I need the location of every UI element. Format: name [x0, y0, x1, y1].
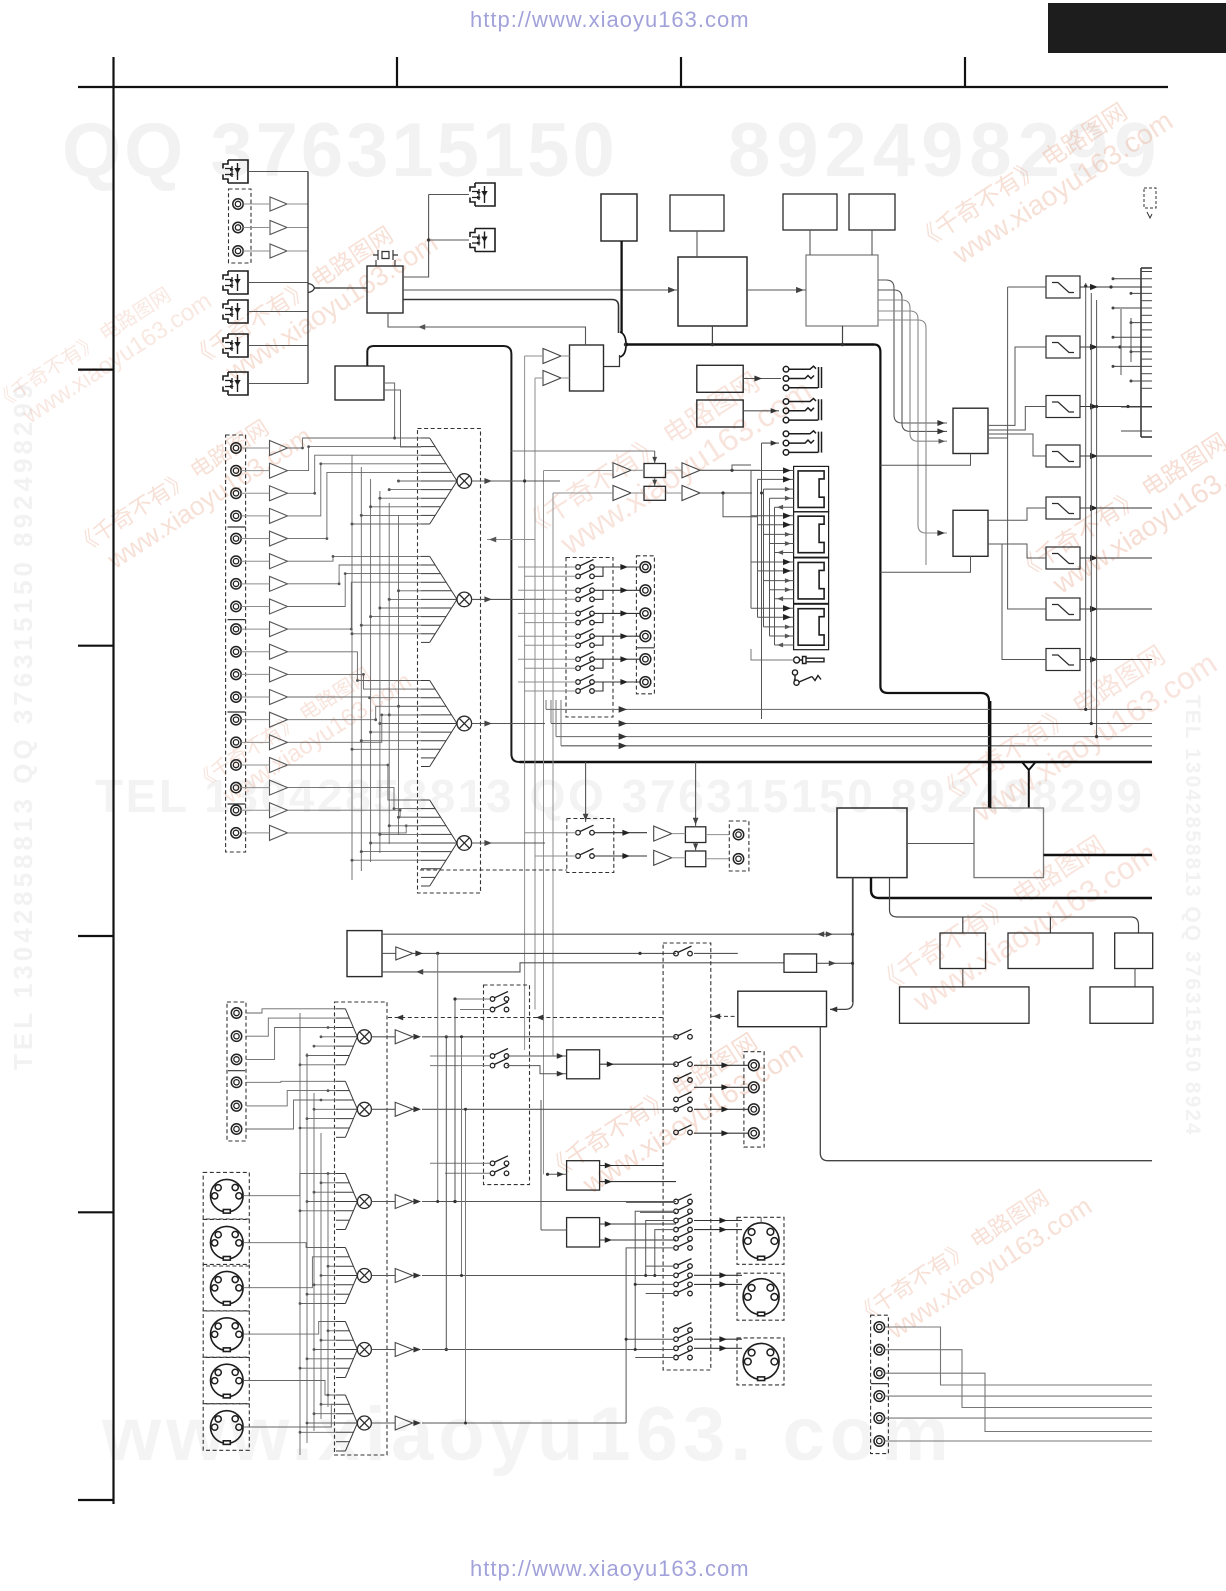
analog buffer 1	[270, 441, 288, 456]
analog RCA jack 9	[231, 624, 241, 634]
dashed ctrl line 2	[711, 1015, 738, 1017]
zone2 mixer ZM2	[357, 1102, 371, 1116]
box E top riser path	[367, 346, 519, 762]
mixer fan 3	[421, 681, 457, 767]
analog buffer 6	[270, 554, 288, 569]
wire S2 to L1 b	[507, 1066, 567, 1074]
comm box P1	[644, 464, 666, 478]
wire optical 3 to bus	[248, 311, 308, 313]
wire M4 out right	[500, 842, 545, 844]
thick bus from B1 down	[620, 241, 622, 333]
wire rec in 1b	[524, 575, 576, 577]
B fanout lines	[878, 280, 947, 565]
S1 switch row 16	[674, 1277, 693, 1287]
box L2	[567, 1161, 600, 1190]
block B3	[783, 194, 837, 230]
wire jack 8 to buffer	[241, 605, 269, 607]
wire S1 to DIN3 a	[694, 1338, 742, 1340]
input group separator 3	[228, 711, 246, 713]
S2 switch row 1	[490, 992, 509, 1002]
analog RCA jack 17	[231, 805, 241, 815]
S1 switch row 13	[674, 1240, 693, 1250]
wire ZM2 out line	[422, 1108, 676, 1110]
dashed ctrl arrow 2	[713, 1014, 720, 1020]
box L3	[567, 1218, 600, 1247]
record switch pair 5b	[576, 661, 595, 671]
wire buffer 2 to bus	[287, 227, 308, 229]
aux RCA jack 6	[874, 1436, 885, 1447]
analog RCA jack 15	[231, 760, 241, 770]
zone2 RCA jack 5	[231, 1101, 241, 1111]
wire rec pair 2 link	[594, 590, 603, 599]
zone2 RCA jack 2	[231, 1031, 241, 1041]
long vertical hp source 2	[534, 378, 536, 1010]
long vertical bundle a	[437, 953, 439, 1201]
wire block C to merge	[604, 355, 620, 367]
wire rec in 1a	[518, 566, 576, 568]
small dashed box top right	[1144, 188, 1156, 208]
thick bus right riser	[874, 345, 989, 809]
wire G1-G2	[907, 843, 974, 845]
block H3	[1115, 933, 1153, 969]
long rec line 4	[561, 745, 1152, 747]
arrow into D2	[937, 530, 945, 536]
S1 switch row 1	[674, 946, 693, 956]
junction 954	[638, 952, 641, 955]
wire M2 out right	[500, 598, 545, 600]
headphone block F1	[697, 365, 743, 392]
border tick top 1	[396, 57, 398, 87]
analog buffer 10	[270, 644, 288, 659]
wire rec in 2b	[524, 598, 576, 600]
wire G1 left down to K	[830, 878, 853, 1010]
bidir line	[382, 933, 853, 935]
wire A to B	[747, 289, 806, 291]
black title box	[1048, 3, 1226, 53]
RJ45 jack 3	[794, 558, 829, 604]
coax RCA jack 3	[233, 246, 243, 256]
wire K bottom down	[820, 1027, 1152, 1161]
junction HP3 vert	[760, 492, 763, 495]
thick bus horizontal main	[626, 343, 874, 345]
wire L3 out b	[600, 1239, 676, 1241]
filter block LPF3	[1046, 396, 1080, 418]
wire S1 row 954 out	[694, 952, 738, 954]
DIN input connector 5	[211, 1364, 244, 1398]
analog RCA jack 18	[231, 828, 241, 838]
zone2 triangle 4	[395, 1269, 413, 1283]
arrow into A	[668, 287, 676, 293]
wire rec pair 5 link	[594, 659, 603, 668]
wire rec out 1	[603, 566, 640, 568]
wire S1 to DIN2 a	[694, 1274, 742, 1276]
RJ45 bus verticals	[751, 471, 775, 646]
D2 to filter wires	[988, 508, 1046, 660]
record switch pair 3b	[576, 615, 595, 625]
monitor RCA jack 1	[748, 1060, 759, 1071]
right edge box top	[1141, 267, 1152, 269]
DIN input connector 2	[211, 1226, 244, 1260]
record switch pair 6a	[576, 675, 595, 685]
analog RCA jack 7	[231, 579, 241, 589]
mixer M4	[457, 836, 472, 851]
rec out RCA jack 6	[640, 677, 651, 688]
optical input connector 5	[223, 372, 248, 395]
record switch pair 3a	[576, 606, 595, 616]
arrow mixer M4 out	[472, 842, 500, 844]
DIN out dashed box 1	[737, 1217, 784, 1264]
comm feed top horizontal	[512, 450, 655, 452]
wire rec out 3	[603, 612, 640, 614]
analog RCA jack 10	[231, 647, 241, 657]
wire zone return	[382, 963, 784, 972]
analog buffer 5	[270, 531, 288, 546]
wire optical 1 to bus	[248, 171, 308, 173]
mixer M1	[457, 474, 472, 489]
optical input connector 1	[223, 160, 248, 183]
rec out RCA jack 4	[640, 631, 651, 642]
junction M1	[523, 479, 526, 482]
wire ZM4 out line	[422, 1275, 674, 1277]
wire B bottom to bus	[842, 326, 844, 345]
analog selector wire matrix	[288, 438, 422, 880]
wire vert hp feed 2	[535, 377, 543, 379]
aux wire 1	[885, 1327, 1152, 1385]
aux RCA jack 5	[874, 1413, 885, 1424]
S1 switch row 14	[674, 1259, 693, 1269]
block B DSP2	[806, 255, 878, 326]
filter LPF8 output	[1080, 659, 1152, 661]
block I2	[1090, 987, 1153, 1023]
wire Q2 out	[706, 858, 730, 860]
analog buffer 7	[270, 576, 288, 591]
zone2 triangle 6	[395, 1416, 413, 1430]
zone2 RCA jack 1	[231, 1008, 241, 1018]
wire S2 to L1 a	[507, 1055, 567, 1057]
record switch pair 1a	[576, 560, 595, 570]
wire S1 to DIN1 b	[694, 1229, 742, 1231]
filter LPF3 output	[1080, 406, 1152, 408]
zone2 mixer fan 3	[336, 1174, 357, 1230]
wire L3 in	[541, 1229, 567, 1231]
record switch pair 6b	[576, 684, 595, 694]
wire vert hp feed 1	[525, 355, 543, 357]
wire ZM2 to triangle	[371, 1108, 395, 1110]
wire ZM3b line	[640, 1211, 676, 1213]
zone2 mixer fan 5	[336, 1322, 357, 1378]
S1 switch row 12	[674, 1231, 693, 1241]
wire H1 drop	[962, 917, 964, 933]
bus Y split to G2	[1022, 762, 1036, 808]
filter block LPF1	[1046, 276, 1080, 298]
zone2 mixer ZM1	[357, 1030, 371, 1044]
border tick left 3	[78, 935, 114, 937]
box J	[784, 954, 817, 972]
wire M3 out right	[500, 723, 545, 725]
S1 switch row 10	[674, 1213, 693, 1223]
filter LPF2 output	[1080, 346, 1152, 348]
zone2 wire matrix	[243, 1009, 336, 1455]
optical input connector 3	[223, 300, 248, 323]
junction J vert	[851, 962, 854, 965]
switch dashed box S2	[484, 985, 530, 1185]
analog RCA jack 11	[231, 669, 241, 679]
wire rec out 5	[603, 658, 640, 660]
long vertical bundle c	[465, 1109, 467, 1423]
DIN input connector 3	[211, 1271, 244, 1305]
wire jack 4 to buffer	[241, 515, 269, 517]
arrow ZM4 out	[413, 1273, 421, 1279]
wire merge to DIR	[314, 287, 367, 289]
block G2 display ctrl	[974, 808, 1044, 878]
zone2 mixer ZM4	[357, 1269, 371, 1283]
svg-text:www.xiaoyu163. com: www.xiaoyu163. com	[101, 1392, 954, 1477]
mixer M2	[457, 592, 472, 607]
D2 bottom stub	[880, 556, 970, 572]
wire optical 2 to bus	[248, 282, 308, 284]
zone2 RCA jack 3	[231, 1054, 241, 1064]
arrow into D1 a	[937, 420, 945, 426]
right edge box bottom	[1141, 436, 1152, 438]
border tick left 2	[78, 645, 114, 647]
wire feed TL2	[553, 492, 613, 494]
dashed ctrl line zoneB	[420, 869, 567, 871]
wire S1 to monitor 2	[694, 1086, 748, 1088]
rec jacks separator	[636, 647, 654, 649]
wire rec in 5a	[518, 658, 576, 660]
zone2 triangle 2	[395, 1102, 413, 1116]
block G1 system micro	[837, 808, 907, 878]
wire ZM5 out line	[422, 1349, 674, 1351]
S1 switch row 9	[674, 1204, 693, 1214]
arrow DIR control left	[418, 324, 425, 330]
analog buffer 8	[270, 599, 288, 614]
filter LPF5 output	[1080, 507, 1152, 509]
filter block LPF6	[1046, 547, 1080, 569]
border tick left 1	[78, 369, 114, 371]
monitor RCA jack 3	[748, 1104, 759, 1115]
rec out RCA jack 3	[640, 608, 651, 619]
wire T1 to C	[561, 355, 570, 357]
wire rec in 5b	[524, 667, 576, 669]
wire S1 to DIN1 a	[694, 1220, 742, 1222]
wire feed TL1	[544, 470, 614, 472]
wire S1 to monitor 1	[694, 1064, 748, 1066]
analog RCA jack 3	[231, 488, 241, 498]
wire H1 to I1	[962, 969, 964, 987]
mixer fan 2	[421, 556, 457, 642]
wire coax 2 to buffer	[243, 227, 270, 229]
wire jack 5 to buffer	[241, 538, 269, 540]
wire E fan feed 2	[384, 390, 421, 447]
block I1	[900, 987, 1030, 1023]
analog buffer 12	[270, 690, 288, 705]
vertical G1K	[852, 878, 854, 1002]
block C headphone amp	[570, 345, 604, 391]
wire P2-TR2	[666, 492, 683, 494]
DIN out connector 2	[743, 1279, 779, 1316]
record switch pair 4b	[576, 638, 595, 648]
comm triangle R1	[682, 463, 700, 478]
long rec line 1	[546, 708, 1152, 710]
wire jack 12 to buffer	[241, 696, 269, 698]
analog buffer 17	[270, 803, 288, 818]
analog input dashed group box	[226, 435, 246, 852]
filter LPF4 output	[1080, 455, 1152, 457]
headphone jack HP1	[783, 366, 821, 390]
DIN input connector 1	[211, 1179, 244, 1213]
dashed ctrl line 1	[388, 1017, 663, 1019]
arrow ZM6 out	[413, 1420, 421, 1426]
digital coax dashed group box	[229, 189, 252, 263]
zone2 mixer fan 6	[336, 1395, 357, 1451]
wire ZM5 to triangle	[371, 1349, 395, 1351]
wire E fan feed 1	[384, 383, 421, 438]
wire rec pair 4 link	[594, 636, 603, 645]
zone2 mixer ZM6	[357, 1416, 371, 1430]
headphone sel triangle 2	[543, 371, 561, 386]
mixer fan 4	[421, 800, 457, 886]
block H2	[1008, 933, 1093, 969]
wire S2 feeds	[430, 999, 490, 1173]
analog RCA jack 14	[231, 737, 241, 747]
svg-text:http://www.xiaoyu163.com: http://www.xiaoyu163.com	[470, 1556, 750, 1581]
wire rec out 6	[603, 681, 640, 683]
headphone block F2	[697, 400, 743, 427]
wire jack 17 to buffer	[241, 809, 269, 811]
zoneB switch dashed box	[567, 819, 614, 873]
RJ45 det switch symbol	[792, 670, 821, 685]
zone2 mixer dashed box	[335, 1002, 388, 1455]
wire jack 16 to buffer	[241, 787, 269, 789]
S1 switch row 5	[674, 1092, 693, 1102]
DIN input connector 6	[211, 1411, 244, 1445]
block B1 top	[601, 194, 637, 241]
analog RCA jack 4	[231, 511, 241, 521]
optical output connector 1	[470, 183, 495, 206]
wire rec in 2a	[518, 589, 576, 591]
rec out RCA jack 1	[640, 562, 651, 573]
zone2 RCA dashed box	[227, 1002, 246, 1141]
wire S1 to DIN2 b	[694, 1283, 742, 1285]
rec out RCA jack 5	[640, 654, 651, 665]
mixer M3	[457, 716, 472, 731]
long vertical hp source 4	[552, 493, 554, 1056]
wire F1 to HP1	[743, 378, 781, 380]
junction x455 a	[453, 997, 456, 1000]
analog RCA jack 12	[231, 692, 241, 702]
S1 switch row 6	[674, 1102, 693, 1112]
box K tuner	[738, 991, 827, 1026]
rec line 3 riser	[555, 700, 557, 737]
S2 switch row 4	[490, 1058, 509, 1068]
wire jack 6 to buffer	[241, 560, 269, 562]
aux wire 5	[885, 1417, 1152, 1419]
record selector dashed box	[566, 558, 613, 718]
comm box P2	[644, 486, 666, 500]
S1 switch row 15	[674, 1268, 693, 1278]
monitor RCA jack 4	[748, 1128, 759, 1139]
wire rec in 6a	[518, 681, 576, 683]
thick line G2 right	[1044, 854, 1153, 857]
mixer matrix dashed box	[418, 429, 481, 894]
right edge box left vertical	[1140, 268, 1142, 437]
wire rec out 4	[603, 635, 640, 637]
block B4	[849, 194, 895, 230]
wire ZM4 to triangle	[371, 1275, 395, 1277]
wire ZM1 to triangle	[371, 1036, 395, 1038]
wire H3 to I2	[1134, 969, 1136, 987]
wire into HP3	[762, 442, 780, 444]
analog RCA jack 1	[231, 443, 241, 453]
RJ45 jack 4	[794, 604, 829, 650]
zone2 mixer fan 4	[336, 1248, 357, 1304]
junction ZM3 a	[453, 1200, 456, 1203]
wire optical 5 to bus	[248, 383, 308, 385]
junction TR2	[721, 491, 724, 494]
record switch pair 2a	[576, 583, 595, 593]
filter block LPF2	[1046, 336, 1080, 358]
RJ45 plug symbol	[794, 657, 824, 664]
aux RCA jack 3	[874, 1368, 885, 1379]
dashed ctrl arrow 1	[396, 1015, 403, 1021]
input group separator 1	[228, 526, 246, 528]
arrow down stub zoneB	[585, 762, 587, 822]
svg-text:TEL 13042858813 QQ 376315150 8: TEL 13042858813 QQ 376315150 8924	[1181, 695, 1204, 1137]
junction x446 b	[445, 1348, 448, 1351]
wire ZM6 out line	[422, 1422, 626, 1424]
analog buffer 18	[270, 825, 288, 840]
zoneB box Q1	[685, 827, 705, 843]
S1 switch row 8	[674, 1194, 693, 1204]
wire TL1-P1	[631, 469, 644, 471]
right zone junction dots	[1084, 284, 1087, 287]
wire jack 9 to buffer	[241, 628, 269, 630]
junction zone out	[436, 952, 439, 955]
DIN out connector 3	[743, 1343, 779, 1380]
aux wire 3	[885, 1373, 1152, 1431]
filter block LPF5	[1046, 497, 1080, 519]
wire DIR to A data	[403, 289, 678, 291]
long rec line 2	[551, 723, 1152, 725]
optical input connector 2	[223, 271, 248, 294]
wire jack 2 to buffer	[241, 470, 269, 472]
wire rec in 4a	[518, 635, 576, 637]
thick bus bottom edge	[520, 761, 1153, 763]
aux RCA dashed box	[871, 1315, 889, 1453]
S1 switch row 19	[674, 1332, 693, 1342]
arrow ZM2 out	[413, 1106, 421, 1112]
wire zoneB b out	[594, 855, 647, 857]
headphone jack HP3	[783, 431, 821, 455]
block H1	[940, 933, 986, 969]
S2 switch row 3	[490, 1049, 509, 1059]
vertical x446	[445, 1037, 447, 1350]
analog RCA jack 5	[231, 533, 241, 543]
thick line G1 bottom right	[871, 878, 1152, 898]
S1 switch row 7	[674, 1125, 693, 1135]
wire Q1 out	[706, 834, 730, 836]
bus merge brace	[620, 332, 626, 357]
zone2 RCA jack 4	[231, 1077, 241, 1087]
wire rec in 3b	[524, 622, 576, 624]
wire L1 out	[600, 1063, 676, 1065]
wire buffer 1 to bus	[287, 203, 308, 205]
zoneB switch a	[576, 825, 595, 835]
record switch pair 4a	[576, 629, 595, 639]
svg-text:TEL 13042858813 QQ 376315150: TEL 13042858813 QQ 376315150 892498299	[8, 381, 38, 1070]
wire ZM6 to triangle	[371, 1422, 395, 1424]
